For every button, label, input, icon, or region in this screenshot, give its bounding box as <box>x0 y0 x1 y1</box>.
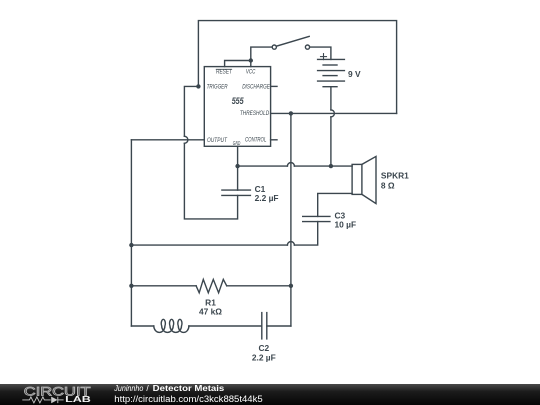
wire switch to battery top <box>310 47 331 59</box>
svg-text:SPKR1: SPKR1 <box>381 171 409 181</box>
node: left bottom-middle junction <box>129 243 133 247</box>
wire speaker bottom to C3 <box>318 193 352 216</box>
svg-text:2.2 µF: 2.2 µF <box>252 353 276 363</box>
svg-text:Detector Metais: Detector Metais <box>153 383 225 393</box>
wire battery negative down with hop over threshold wire <box>330 87 332 110</box>
wire GND to speaker with hop over vertical <box>237 146 239 166</box>
svg-text:C2: C2 <box>258 343 269 353</box>
svg-text:2.2 µF: 2.2 µF <box>255 193 279 203</box>
svg-text:http://circuitlab.com/c3kck885: http://circuitlab.com/c3kck885t44k5 <box>114 394 262 404</box>
svg-text:DISCHARGE: DISCHARGE <box>242 84 270 90</box>
pin stub DISCHARGE <box>271 85 277 87</box>
speaker SPKR1 <box>352 164 362 194</box>
svg-text:Juninnho: Juninnho <box>113 383 143 393</box>
wire OUTPUT to left vertical <box>131 139 204 141</box>
svg-text:TRIGGER: TRIGGER <box>207 84 229 90</box>
junction dots <box>129 58 333 288</box>
wire THRESHOLD to right edge <box>271 112 397 114</box>
node: gnd junction <box>235 164 239 168</box>
svg-text:RESET: RESET <box>216 70 233 76</box>
resistor R1 <box>131 285 196 287</box>
svg-text:9 V: 9 V <box>348 69 361 79</box>
node: reset/vcc junction <box>249 58 253 62</box>
logo squiggle resistor-diode <box>22 397 63 403</box>
pin stub CONTROL <box>271 139 277 141</box>
svg-text:CONTROL: CONTROL <box>245 137 266 143</box>
svg-text:10 µF: 10 µF <box>335 220 357 230</box>
svg-text:555: 555 <box>232 96 245 106</box>
wire RESET pin to VCC node <box>225 61 251 67</box>
svg-text:VCC: VCC <box>246 70 256 76</box>
footer bar <box>0 383 540 405</box>
wire top loop from TRIGGER junction up and around to THRESHOLD wire <box>198 21 396 114</box>
capacitor C2 <box>261 313 263 339</box>
capacitor C1 <box>222 189 251 191</box>
op-amp U1: 555 timer box <box>204 67 270 147</box>
wire THRESHOLD node vertical down <box>290 113 292 326</box>
battery plus sign <box>321 56 327 58</box>
wire TRIGGER node left and down to C1 bottom, hop over output wire <box>184 86 198 136</box>
svg-text:8 Ω: 8 Ω <box>381 181 395 191</box>
inductor L1 <box>154 319 189 332</box>
wire VCC pin up to switch <box>251 47 272 67</box>
capacitor C3 <box>303 215 330 217</box>
wire C1 top to GND junction <box>237 166 239 190</box>
switch SW1 <box>272 45 276 49</box>
wire C3 bottom down and left with hop <box>294 222 317 246</box>
node: threshold junction <box>289 111 293 115</box>
svg-text:GND: GND <box>233 141 241 147</box>
node: R1 right junction <box>289 284 293 288</box>
svg-text:LAB: LAB <box>65 394 91 404</box>
svg-text:47 kΩ: 47 kΩ <box>199 307 222 317</box>
bottom wire with inductor and C2 <box>131 325 153 327</box>
node: trigger junction <box>196 84 200 88</box>
node: R1 left junction <box>129 284 133 288</box>
svg-text:THRESHOLD: THRESHOLD <box>240 111 270 117</box>
battery V1 9V <box>318 58 345 60</box>
svg-text:OUTPUT: OUTPUT <box>207 138 228 144</box>
node: battery/speaker junction <box>329 164 333 168</box>
